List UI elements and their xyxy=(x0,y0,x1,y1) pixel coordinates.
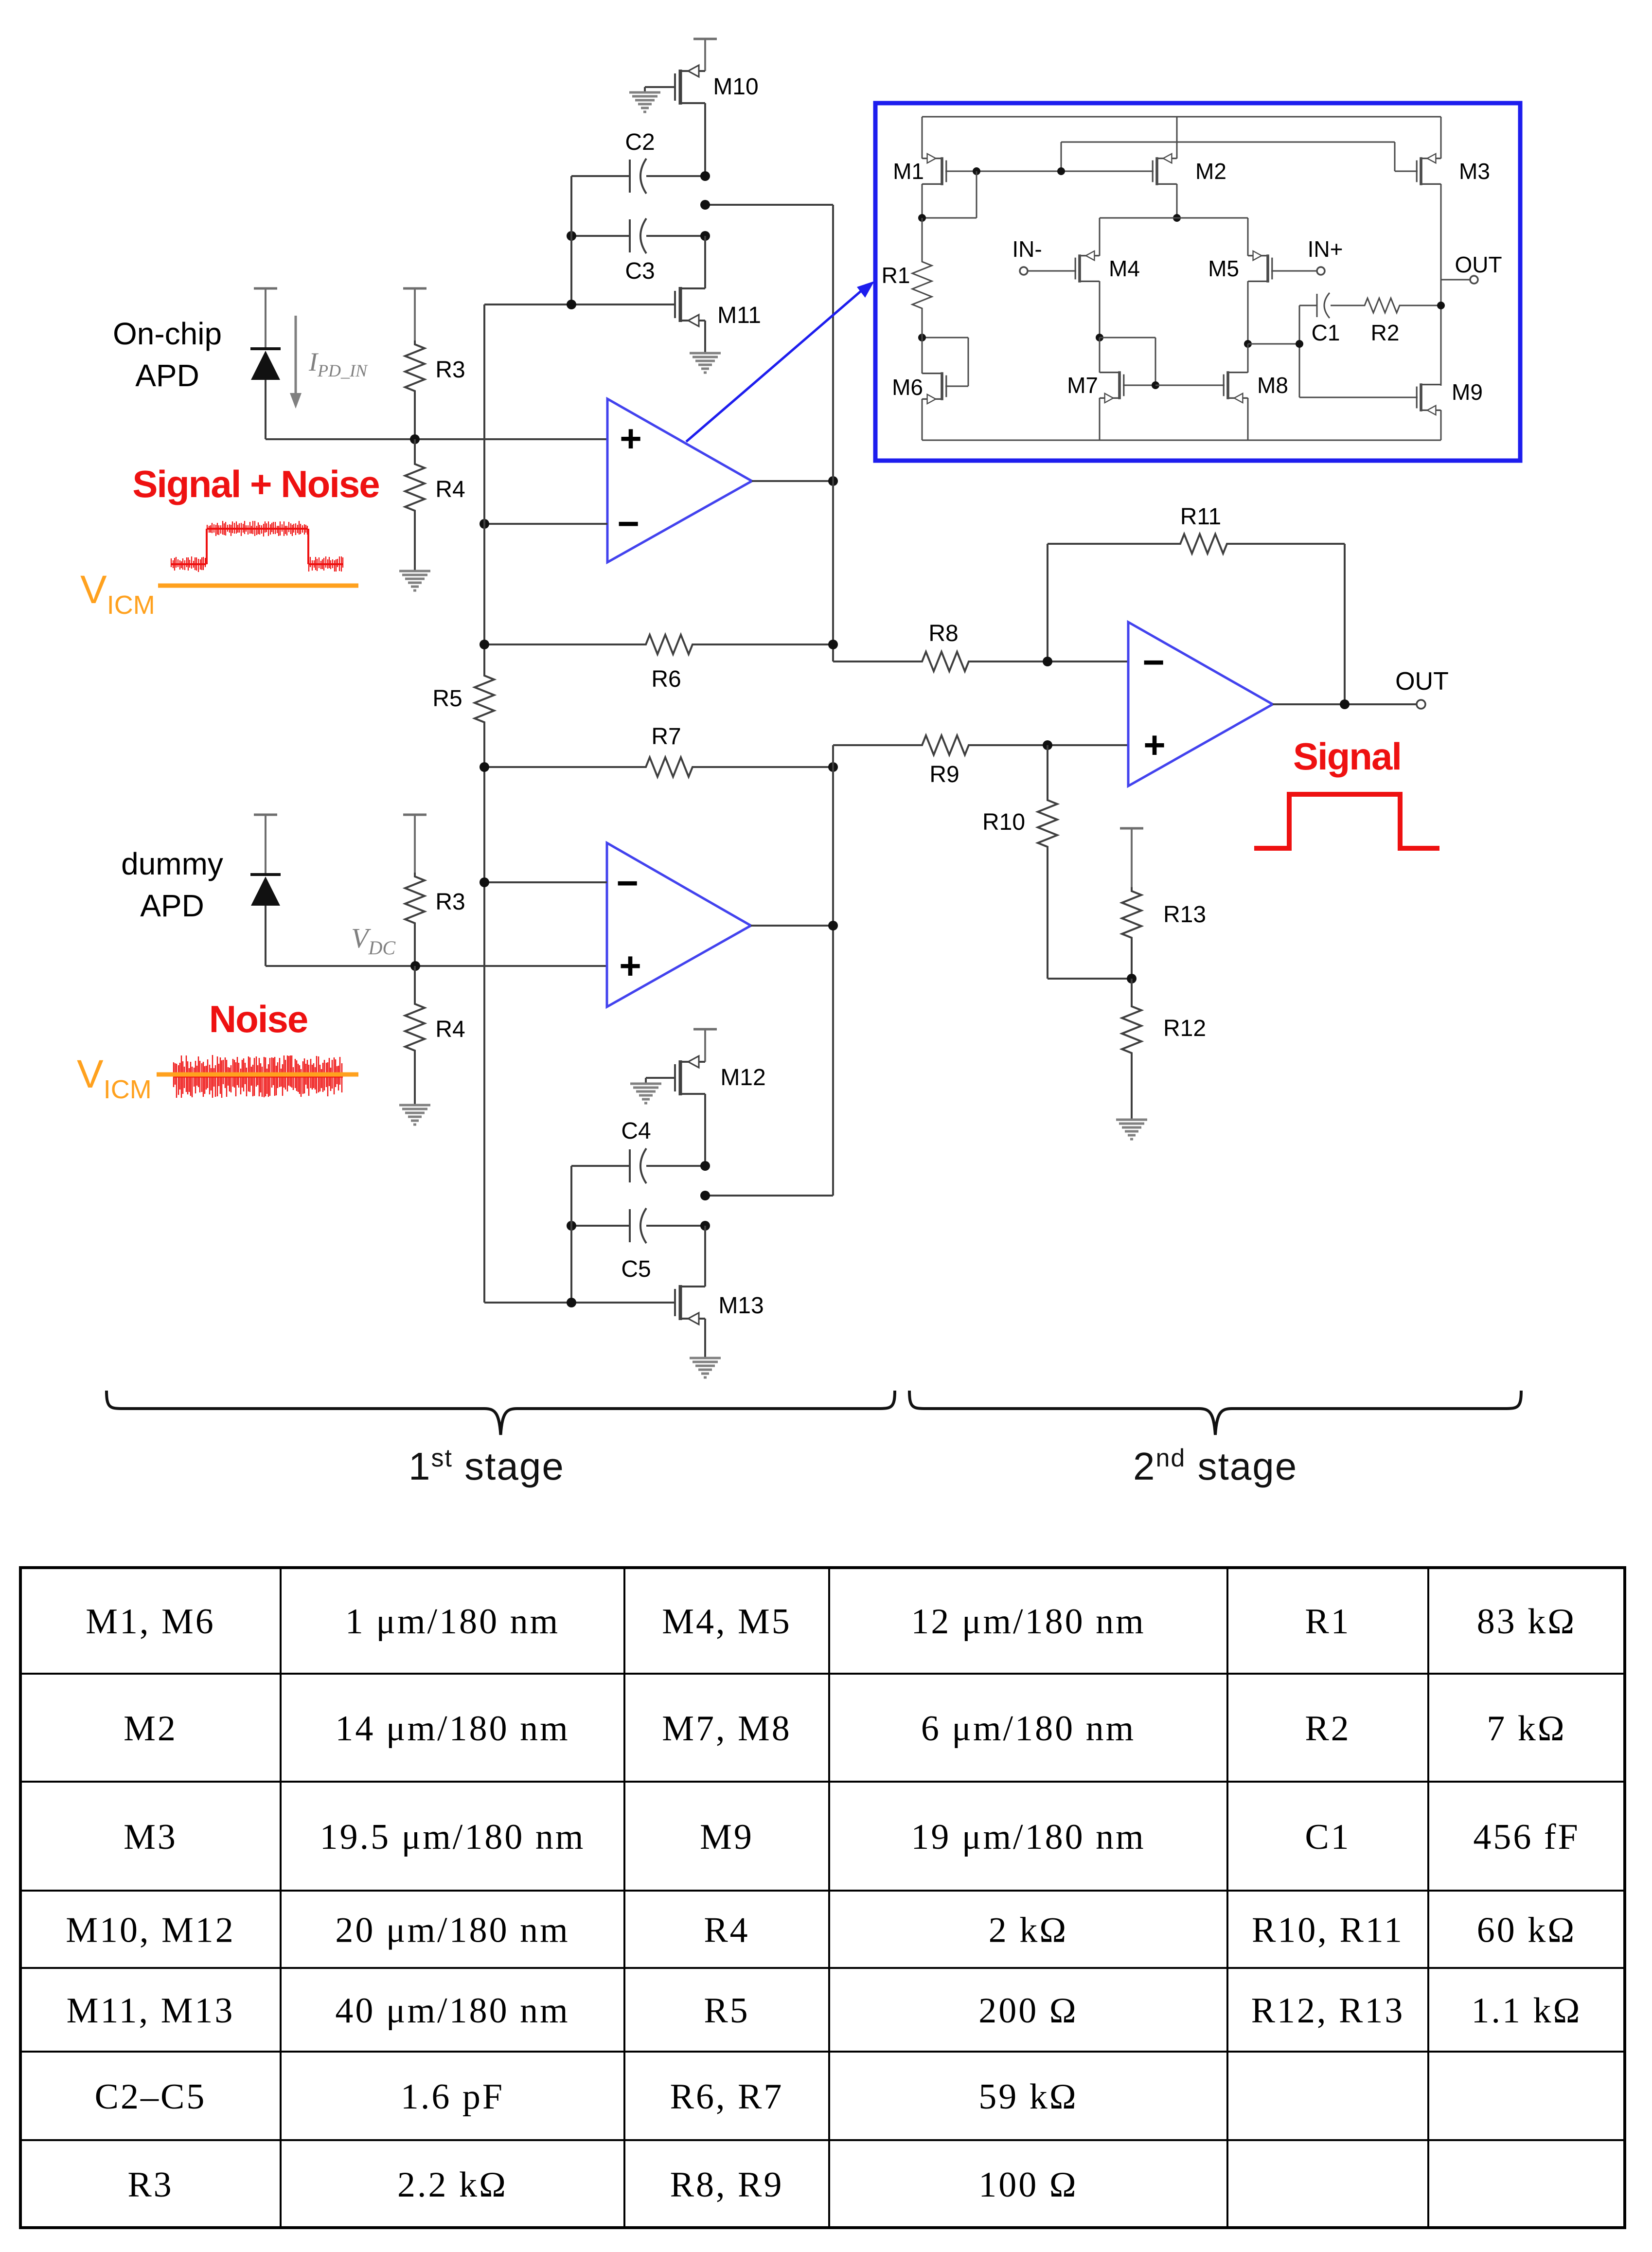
ground at M12 gate xyxy=(630,1083,661,1085)
capacitor C1 xyxy=(1299,305,1317,306)
resistor R3 bottom xyxy=(405,873,425,927)
M6 body rails xyxy=(922,338,923,374)
ground below M13 xyxy=(690,1357,721,1359)
M4 drain wire xyxy=(1099,281,1101,338)
cap left rail top xyxy=(570,176,572,304)
wire M11 source to ground xyxy=(704,321,706,352)
M10 gate wire xyxy=(645,86,675,88)
wire M8 drain to C1 xyxy=(1248,343,1299,345)
power supply T above dummy APD xyxy=(254,814,277,816)
power supply T above M10 xyxy=(693,38,717,40)
svg-text:M1: M1 xyxy=(893,159,924,184)
svg-text:R9: R9 xyxy=(929,762,959,787)
M2 source rail xyxy=(1176,117,1178,159)
node dot op2 out xyxy=(1340,699,1350,709)
wire op1 output xyxy=(752,480,833,482)
resistor R8 xyxy=(833,661,918,662)
transistor M2 xyxy=(1153,154,1177,185)
svg-text:M5: M5 xyxy=(1208,256,1239,281)
svg-text:200 Ω: 200 Ω xyxy=(978,1991,1078,2031)
svg-text:1.1 kΩ: 1.1 kΩ xyxy=(1472,1991,1582,2031)
node dot R6 left xyxy=(480,640,489,649)
node dot C1 rail xyxy=(1296,340,1303,348)
wire feedback tap right xyxy=(705,204,833,206)
svg-text:+: + xyxy=(1143,723,1166,766)
node dot R9/op2 xyxy=(1043,740,1052,750)
M3 source rail xyxy=(1440,117,1442,159)
M9 body rails xyxy=(1440,385,1442,386)
svg-text:60 kΩ: 60 kΩ xyxy=(1477,1911,1577,1950)
transistor M10 xyxy=(675,65,705,105)
terminal OUT inset xyxy=(1470,276,1478,284)
M4 source wire xyxy=(1099,218,1101,256)
resistor R12 xyxy=(1131,979,1133,1002)
inset box xyxy=(875,103,1520,461)
svg-text:R12, R13: R12, R13 xyxy=(1251,1991,1405,2031)
transistor M5 xyxy=(1248,251,1272,283)
resistor R4 top xyxy=(414,439,416,460)
node dot tail xyxy=(1173,214,1181,222)
svg-text:12 μm/180 nm: 12 μm/180 nm xyxy=(911,1602,1145,1642)
node dot op1 out xyxy=(828,476,838,486)
wire dummy APD to op-amp3 + xyxy=(265,906,266,966)
M5 drain wire xyxy=(1247,281,1249,344)
ground at M10 gate xyxy=(629,91,660,94)
svg-text:R6, R7: R6, R7 xyxy=(670,2077,784,2117)
M4 gate wire xyxy=(1028,270,1076,272)
svg-text:M2: M2 xyxy=(124,1709,178,1749)
node dot C3-right xyxy=(700,231,710,241)
transistor M12 xyxy=(675,1056,705,1095)
svg-text:IN-: IN- xyxy=(1012,236,1042,262)
transistor M13 xyxy=(675,1285,705,1324)
terminal OUT circle xyxy=(1417,700,1425,709)
svg-text:C2–C5: C2–C5 xyxy=(95,2077,207,2117)
power supply T above on-chip APD xyxy=(254,287,277,290)
svg-text:M10: M10 xyxy=(713,74,758,100)
svg-text:R3: R3 xyxy=(127,2165,173,2205)
vertical feedback line lower xyxy=(832,745,834,1196)
power supply T above R3 bottom xyxy=(403,814,426,816)
svg-text:M11, M13: M11, M13 xyxy=(67,1991,235,2031)
pointer arrow to inset xyxy=(686,290,862,442)
svg-text:dummy: dummy xyxy=(121,846,223,881)
svg-text:2 kΩ: 2 kΩ xyxy=(989,1911,1068,1950)
M7 gate loop xyxy=(1100,337,1155,339)
op-amp U3 xyxy=(607,843,751,1007)
svg-text:2.2 kΩ: 2.2 kΩ xyxy=(397,2165,508,2205)
ground below M11 xyxy=(690,352,721,355)
svg-text:−: − xyxy=(1142,641,1165,683)
node dot C1R2 out xyxy=(1437,302,1445,309)
svg-text:+: + xyxy=(620,417,642,460)
M8 body rails xyxy=(1247,344,1249,373)
wire M12 drain to C4 xyxy=(704,1094,706,1166)
transistor M8 xyxy=(1224,371,1248,403)
svg-text:M2: M2 xyxy=(1195,159,1226,184)
svg-text:+: + xyxy=(619,944,641,987)
svg-text:APD: APD xyxy=(135,358,199,393)
C1 left rail xyxy=(1299,305,1300,397)
terminal IN+ circle xyxy=(1317,267,1325,275)
svg-text:OUT: OUT xyxy=(1395,667,1449,696)
node dot op3 out xyxy=(828,921,838,930)
svg-text:19.5 μm/180 nm: 19.5 μm/180 nm xyxy=(320,1817,586,1857)
M1 drain wire xyxy=(922,184,923,218)
node dot gate rail xyxy=(1057,167,1065,175)
svg-text:Signal: Signal xyxy=(1293,735,1401,778)
M3 gate wire xyxy=(1395,171,1418,172)
svg-text:R13: R13 xyxy=(1163,902,1206,928)
M9 gate wire xyxy=(1299,397,1418,398)
svg-text:14 μm/180 nm: 14 μm/180 nm xyxy=(335,1709,569,1749)
svg-text:C3: C3 xyxy=(625,258,655,284)
svg-text:R6: R6 xyxy=(651,666,681,692)
svg-text:APD: APD xyxy=(140,888,204,923)
M5 gate wire xyxy=(1271,270,1317,272)
transistor M11 xyxy=(675,287,705,326)
terminal IN- circle xyxy=(1020,267,1028,275)
svg-text:C5: C5 xyxy=(621,1256,651,1282)
svg-text:M9: M9 xyxy=(1452,379,1483,405)
node dot R7 right xyxy=(828,762,838,772)
capacitor C2 xyxy=(571,175,630,177)
resistor R1 xyxy=(922,218,923,258)
svg-text:1 μm/180 nm: 1 μm/180 nm xyxy=(345,1602,560,1642)
M13 gate row xyxy=(484,1302,675,1304)
M11 gate row xyxy=(484,304,675,305)
ground below R12 xyxy=(1116,1119,1147,1121)
svg-text:R4: R4 xyxy=(704,1911,749,1950)
svg-text:On-chip: On-chip xyxy=(113,316,222,351)
signal pulse waveform xyxy=(1254,794,1439,848)
resistor R13 xyxy=(1122,887,1141,942)
wire M13 source to ground xyxy=(704,1319,706,1357)
op-amp U2 xyxy=(1128,622,1273,786)
cap left rail bottom xyxy=(570,1166,572,1303)
svg-text:M4: M4 xyxy=(1109,256,1140,281)
resistor R5 xyxy=(475,672,494,726)
svg-text:R10: R10 xyxy=(982,809,1025,835)
node dot gate row xyxy=(567,300,576,309)
svg-text:R3: R3 xyxy=(435,357,465,383)
node dot op1 minus xyxy=(480,519,489,529)
on-chip APD diode xyxy=(250,347,281,350)
svg-text:20 μm/180 nm: 20 μm/180 nm xyxy=(335,1911,569,1950)
node dot R7 left xyxy=(480,762,489,772)
inset top rail xyxy=(922,116,1441,118)
node dot M7 gate xyxy=(1152,381,1159,389)
M6 gate loop xyxy=(922,337,968,339)
svg-text:R4: R4 xyxy=(435,477,465,502)
M7-M8 gate row xyxy=(1155,385,1225,386)
svg-text:R1: R1 xyxy=(882,263,910,288)
node dot R8/op2 xyxy=(1043,657,1052,666)
svg-text:−: − xyxy=(617,502,639,545)
resistor R9 xyxy=(833,744,918,746)
power supply T above R3 top xyxy=(403,287,426,290)
ground below R4 top xyxy=(399,570,430,572)
noise waveform xyxy=(174,1055,342,1098)
node dot tap lower xyxy=(700,1191,710,1200)
svg-text:19 μm/180 nm: 19 μm/180 nm xyxy=(911,1817,1145,1857)
V_ICM line top xyxy=(158,584,358,588)
inset second rail xyxy=(1061,142,1395,143)
node dot C2-right xyxy=(700,171,710,181)
svg-text:R2: R2 xyxy=(1371,320,1400,345)
svg-text:M13: M13 xyxy=(718,1293,764,1319)
wire APD to op-amp1 + xyxy=(265,380,266,439)
svg-text:−: − xyxy=(616,861,639,904)
M12 gate wire xyxy=(646,1077,675,1079)
transistor M3 xyxy=(1417,154,1441,185)
resistor R10 xyxy=(1047,745,1048,796)
svg-text:M4, M5: M4, M5 xyxy=(662,1602,792,1642)
M1 diode tie xyxy=(976,171,977,218)
svg-text:OUT: OUT xyxy=(1455,252,1502,277)
node dot gate row bottom xyxy=(567,1298,576,1307)
M1 source rail xyxy=(922,117,923,159)
resistor R2 xyxy=(1362,298,1403,313)
svg-text:M10, M12: M10, M12 xyxy=(66,1911,235,1950)
power supply T above R13 xyxy=(1120,827,1143,830)
svg-text:C2: C2 xyxy=(625,129,655,155)
node dot R13/R12 xyxy=(1127,974,1137,983)
svg-text:R7: R7 xyxy=(651,724,681,750)
transistor M7 xyxy=(1100,371,1124,403)
wire op1 minus input xyxy=(484,523,607,525)
node dot R1 bottom xyxy=(918,334,926,341)
M7 body rails xyxy=(1099,338,1101,373)
resistor R11 feedback xyxy=(1047,544,1048,661)
capacitor C5 xyxy=(571,1225,630,1227)
svg-text:59 kΩ: 59 kΩ xyxy=(978,2077,1078,2117)
resistor R6 xyxy=(484,643,642,645)
svg-text:R5: R5 xyxy=(432,686,462,712)
svg-text:1.6 pF: 1.6 pF xyxy=(401,2077,504,2117)
node dot R6 right xyxy=(828,640,838,649)
node dot M1 drain xyxy=(918,214,926,222)
M2 drain wire xyxy=(1176,184,1178,218)
M5 source wire xyxy=(1247,218,1249,256)
dummy APD diode xyxy=(250,873,281,876)
V_ICM line bottom xyxy=(157,1072,358,1077)
wire op3 minus input xyxy=(484,881,607,883)
svg-text:M3: M3 xyxy=(124,1817,178,1857)
node dot tap xyxy=(700,200,710,210)
wire op3 output xyxy=(751,925,833,927)
node dot R3/R4 xyxy=(410,434,420,444)
svg-text:456 fF: 456 fF xyxy=(1473,1817,1580,1857)
svg-text:M1, M6: M1, M6 xyxy=(86,1602,215,1642)
power supply T above M12 xyxy=(693,1028,717,1031)
current arrow I_PD_IN xyxy=(295,316,297,395)
svg-text:R8, R9: R8, R9 xyxy=(670,2165,784,2205)
resistor R7 xyxy=(484,766,642,768)
svg-text:IN+: IN+ xyxy=(1308,236,1343,262)
node dot M1 diode xyxy=(973,167,980,175)
svg-text:40 μm/180 nm: 40 μm/180 nm xyxy=(335,1991,569,2031)
svg-text:R8: R8 xyxy=(928,621,958,646)
svg-text:R10, R11: R10, R11 xyxy=(1252,1911,1404,1950)
svg-text:M11: M11 xyxy=(717,303,761,328)
node dot op3 minus xyxy=(480,877,489,887)
tail rail xyxy=(1100,217,1248,219)
op-amp U1 xyxy=(607,399,752,562)
svg-text:M7, M8: M7, M8 xyxy=(662,1709,792,1749)
svg-text:M9: M9 xyxy=(700,1817,754,1857)
svg-text:R5: R5 xyxy=(704,1991,749,2031)
transistor M9 xyxy=(1417,383,1441,415)
svg-text:M8: M8 xyxy=(1257,373,1288,398)
node dot C5 left xyxy=(567,1221,576,1231)
svg-text:6 μm/180 nm: 6 μm/180 nm xyxy=(921,1709,1136,1749)
wire C5 to M13 xyxy=(704,1226,706,1287)
svg-text:100 Ω: 100 Ω xyxy=(978,2165,1078,2205)
resistor R3 top xyxy=(405,340,425,395)
svg-text:C4: C4 xyxy=(621,1118,651,1144)
transistor M6 xyxy=(922,372,946,404)
waveform signal+noise xyxy=(171,556,205,572)
inset bottom rail xyxy=(922,440,1441,441)
M3 drain rail xyxy=(1440,184,1442,385)
svg-text:R4: R4 xyxy=(435,1017,465,1042)
node dot C5 right xyxy=(700,1221,710,1231)
vertical feedback line upper xyxy=(832,205,834,661)
resistor R4 bottom xyxy=(414,966,416,1000)
svg-text:M3: M3 xyxy=(1459,159,1490,184)
brace 1st stage xyxy=(107,1391,895,1435)
svg-text:C1: C1 xyxy=(1312,320,1340,345)
wire op2 output xyxy=(1273,703,1417,705)
svg-text:R2: R2 xyxy=(1305,1709,1350,1749)
capacitor C4 xyxy=(571,1165,630,1167)
node dot M4/M7 xyxy=(1096,334,1103,341)
wire M10 drain to C2 node xyxy=(704,103,706,176)
svg-text:R1: R1 xyxy=(1305,1602,1350,1642)
wire feedback tap lower xyxy=(705,1195,833,1197)
svg-text:M6: M6 xyxy=(892,375,923,400)
svg-text:Signal + Noise: Signal + Noise xyxy=(132,463,379,505)
svg-text:Noise: Noise xyxy=(209,998,307,1040)
svg-text:R12: R12 xyxy=(1163,1016,1206,1041)
svg-text:M7: M7 xyxy=(1067,373,1098,398)
M1 gate row xyxy=(945,171,1154,172)
svg-text:R3: R3 xyxy=(435,889,465,915)
node dot C4 right xyxy=(700,1161,710,1171)
svg-text:R11: R11 xyxy=(1180,504,1222,530)
ground below R4 bottom xyxy=(399,1104,430,1107)
wire C3 node to M11 xyxy=(704,236,706,288)
table grid xyxy=(20,1568,1625,2228)
vertical node line x996 xyxy=(483,304,485,672)
brace 2nd stage xyxy=(909,1391,1521,1435)
svg-text:7 kΩ: 7 kΩ xyxy=(1487,1709,1566,1749)
transistor M1 xyxy=(922,154,946,185)
node dot C3-left xyxy=(567,231,576,241)
svg-text:C1: C1 xyxy=(1305,1817,1350,1857)
svg-text:83 kΩ: 83 kΩ xyxy=(1477,1602,1577,1642)
svg-text:M12: M12 xyxy=(720,1065,765,1090)
node dot VDC xyxy=(410,961,420,971)
transistor M4 xyxy=(1075,251,1100,283)
capacitor C3 xyxy=(571,235,630,237)
inset OUT wire xyxy=(1441,279,1470,281)
node dot M5/M8 xyxy=(1244,340,1252,348)
